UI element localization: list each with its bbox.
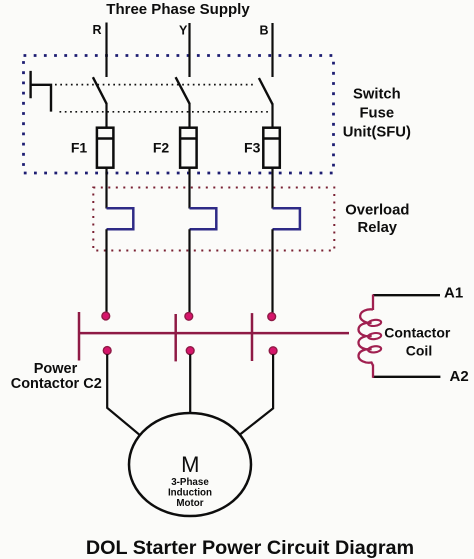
svg-text:Coil: Coil bbox=[406, 343, 432, 359]
svg-text:F2: F2 bbox=[153, 139, 170, 155]
svg-text:Three Phase Supply: Three Phase Supply bbox=[106, 1, 250, 18]
svg-text:Power: Power bbox=[34, 361, 78, 377]
svg-text:Fuse: Fuse bbox=[360, 106, 395, 122]
svg-text:F3: F3 bbox=[244, 139, 261, 155]
svg-text:R: R bbox=[92, 23, 101, 37]
svg-text:Unit(SFU): Unit(SFU) bbox=[343, 125, 411, 141]
svg-text:Switch: Switch bbox=[353, 87, 401, 103]
svg-text:F1: F1 bbox=[71, 139, 88, 155]
svg-text:B: B bbox=[259, 24, 268, 38]
svg-text:Contactor C2: Contactor C2 bbox=[11, 376, 102, 392]
svg-text:Y: Y bbox=[179, 24, 188, 38]
svg-text:DOL Starter Power Circuit Diag: DOL Starter Power Circuit Diagram bbox=[86, 537, 414, 559]
svg-text:Relay: Relay bbox=[358, 220, 398, 236]
svg-text:Motor: Motor bbox=[176, 498, 203, 509]
svg-text:Overload: Overload bbox=[345, 202, 409, 218]
svg-text:M: M bbox=[181, 452, 199, 477]
svg-text:Induction: Induction bbox=[168, 488, 212, 499]
svg-text:A1: A1 bbox=[444, 285, 463, 302]
svg-text:Contactor: Contactor bbox=[384, 325, 451, 341]
svg-text:A2: A2 bbox=[450, 368, 469, 385]
svg-text:3-Phase: 3-Phase bbox=[171, 477, 209, 488]
